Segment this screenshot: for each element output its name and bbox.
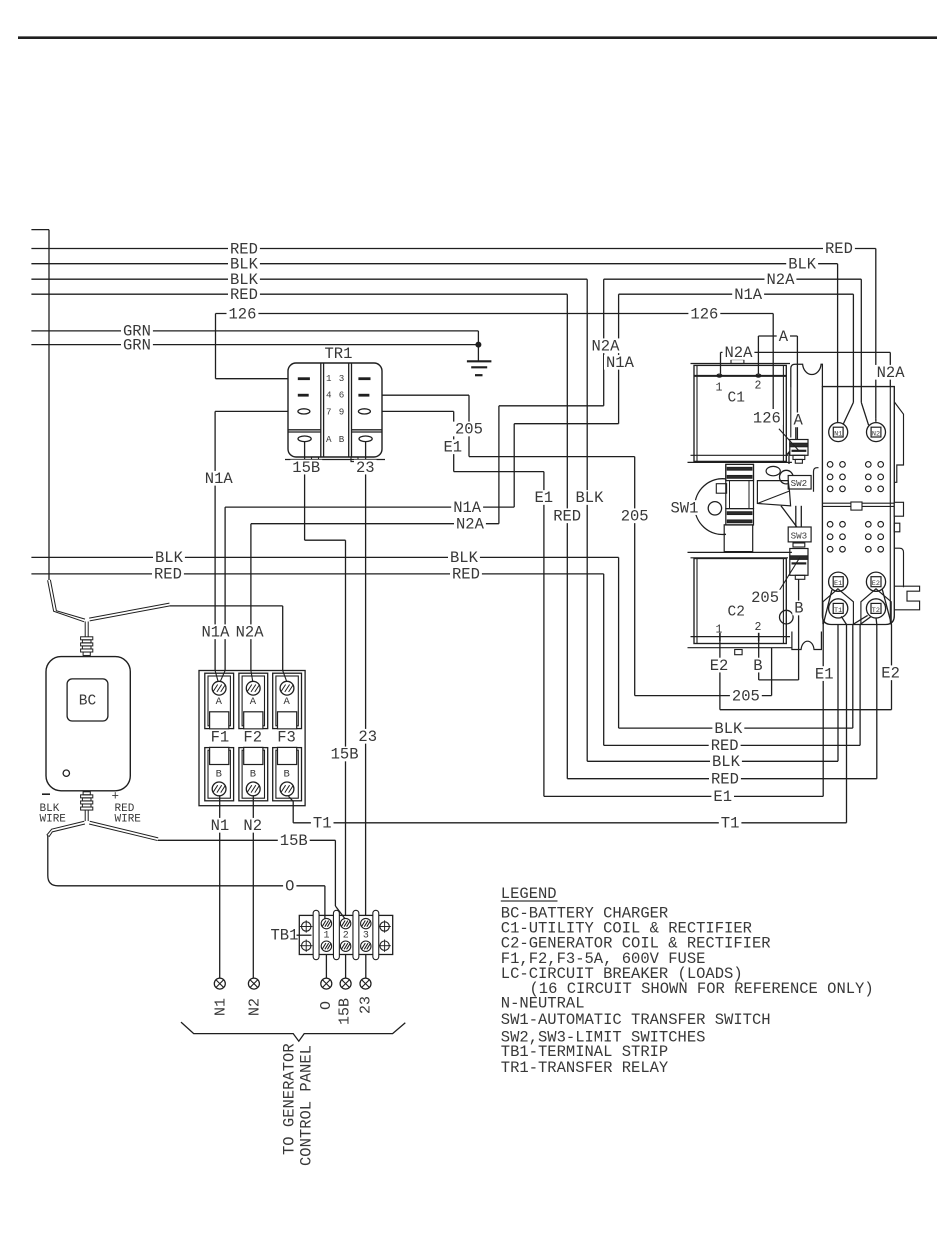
svg-text:N2A: N2A xyxy=(236,624,265,642)
svg-text:B: B xyxy=(216,769,222,781)
svg-text:TR1: TR1 xyxy=(325,345,353,363)
svg-text:F1: F1 xyxy=(211,729,230,747)
svg-text:RED: RED xyxy=(825,240,853,258)
svg-text:205: 205 xyxy=(621,508,649,526)
svg-text:23: 23 xyxy=(358,728,377,746)
svg-text:N2: N2 xyxy=(247,998,264,1016)
svg-text:15B: 15B xyxy=(331,746,359,764)
svg-text:1: 1 xyxy=(716,382,723,395)
svg-text:A: A xyxy=(284,696,291,708)
svg-text:1: 1 xyxy=(716,624,723,637)
svg-text:N2A: N2A xyxy=(456,516,485,534)
svg-text:RED: RED xyxy=(154,566,182,584)
svg-text:BLK: BLK xyxy=(576,489,605,507)
svg-text:4: 4 xyxy=(326,390,332,401)
svg-text:SW3: SW3 xyxy=(791,530,808,541)
svg-text:N1A: N1A xyxy=(606,354,635,372)
svg-text:A: A xyxy=(250,696,257,708)
svg-text:205: 205 xyxy=(732,688,760,706)
svg-text:RED: RED xyxy=(452,566,480,584)
svg-text:N2A: N2A xyxy=(725,344,754,362)
svg-text:RED: RED xyxy=(230,286,258,304)
svg-text:1: 1 xyxy=(326,373,332,384)
svg-text:RED: RED xyxy=(711,771,739,789)
svg-text:O: O xyxy=(285,878,294,896)
svg-text:15B: 15B xyxy=(337,998,354,1025)
svg-text:T1: T1 xyxy=(721,815,740,833)
svg-text:BLK: BLK xyxy=(450,549,479,567)
svg-text:N1A: N1A xyxy=(453,499,482,517)
svg-text:GRN: GRN xyxy=(123,336,151,354)
svg-text:C1: C1 xyxy=(728,391,745,407)
svg-text:+: + xyxy=(112,790,120,804)
svg-text:B: B xyxy=(753,657,762,675)
svg-text:N2A: N2A xyxy=(877,364,906,382)
svg-text:23: 23 xyxy=(358,996,375,1014)
svg-text:A: A xyxy=(326,434,332,445)
svg-text:B: B xyxy=(794,600,803,618)
svg-text:WIRE: WIRE xyxy=(115,814,142,826)
svg-text:BLK: BLK xyxy=(155,549,184,567)
svg-text:N1A: N1A xyxy=(202,624,231,642)
svg-text:LEGEND: LEGEND xyxy=(501,885,557,903)
svg-text:E1: E1 xyxy=(815,665,834,683)
svg-text:TR1-TRANSFER RELAY: TR1-TRANSFER RELAY xyxy=(501,1059,669,1077)
svg-text:1: 1 xyxy=(324,931,330,942)
svg-text:E1: E1 xyxy=(713,788,732,806)
svg-text:T1: T1 xyxy=(313,815,332,833)
svg-text:B: B xyxy=(339,434,345,445)
svg-text:O: O xyxy=(318,1001,335,1010)
svg-text:23: 23 xyxy=(356,459,375,477)
svg-text:N2: N2 xyxy=(872,431,880,439)
svg-text:N1A: N1A xyxy=(734,286,763,304)
svg-text:N-NEUTRAL: N-NEUTRAL xyxy=(501,995,585,1013)
svg-text:205: 205 xyxy=(455,421,483,439)
svg-text:WIRE: WIRE xyxy=(40,814,67,826)
svg-text:F2: F2 xyxy=(243,729,262,747)
svg-text:E2: E2 xyxy=(710,657,729,675)
svg-text:A: A xyxy=(794,412,804,430)
svg-text:126: 126 xyxy=(690,305,718,323)
svg-text:SW1-AUTOMATIC TRANSFER SWITCH: SW1-AUTOMATIC TRANSFER SWITCH xyxy=(501,1011,771,1029)
svg-text:E1: E1 xyxy=(535,489,554,507)
svg-text:A: A xyxy=(216,696,223,708)
svg-text:7: 7 xyxy=(326,407,332,418)
svg-text:126: 126 xyxy=(229,305,257,323)
svg-text:SW2: SW2 xyxy=(791,478,808,489)
svg-text:TO GENERATOR: TO GENERATOR xyxy=(281,1043,299,1155)
svg-text:N2A: N2A xyxy=(592,338,621,356)
svg-text:TB1: TB1 xyxy=(271,927,299,945)
svg-text:T2: T2 xyxy=(872,607,880,615)
svg-text:N1: N1 xyxy=(213,998,230,1016)
svg-text:E2: E2 xyxy=(881,665,900,683)
svg-text:E1: E1 xyxy=(444,439,463,457)
svg-text:N1A: N1A xyxy=(205,470,234,488)
svg-text:T1: T1 xyxy=(834,607,842,615)
svg-text:BC: BC xyxy=(79,694,97,710)
svg-text:F3: F3 xyxy=(277,729,296,747)
svg-text:RED: RED xyxy=(553,508,581,526)
svg-text:A: A xyxy=(779,328,789,346)
svg-text:3: 3 xyxy=(339,373,345,384)
svg-text:CONTROL PANEL: CONTROL PANEL xyxy=(298,1045,316,1166)
svg-text:9: 9 xyxy=(339,407,345,418)
svg-text:2: 2 xyxy=(755,621,762,634)
svg-text:15B: 15B xyxy=(280,832,308,850)
svg-text:B: B xyxy=(284,769,290,781)
svg-text:C2: C2 xyxy=(728,605,745,621)
svg-text:15B: 15B xyxy=(292,459,320,477)
svg-text:2: 2 xyxy=(343,931,349,942)
svg-text:N2: N2 xyxy=(243,817,262,835)
svg-text:N1: N1 xyxy=(211,817,230,835)
svg-text:6: 6 xyxy=(339,390,345,401)
svg-text:205: 205 xyxy=(751,589,779,607)
svg-text:126: 126 xyxy=(753,409,781,427)
svg-text:BLK: BLK xyxy=(714,720,743,738)
svg-text:N2A: N2A xyxy=(767,271,796,289)
svg-text:BLK: BLK xyxy=(712,753,741,771)
svg-text:N1: N1 xyxy=(834,431,842,439)
svg-text:2: 2 xyxy=(755,380,762,393)
svg-text:B: B xyxy=(250,769,256,781)
svg-text:E2: E2 xyxy=(872,580,880,588)
svg-text:E1: E1 xyxy=(834,580,842,588)
svg-text:SW1: SW1 xyxy=(671,499,699,517)
svg-text:3: 3 xyxy=(363,931,369,942)
